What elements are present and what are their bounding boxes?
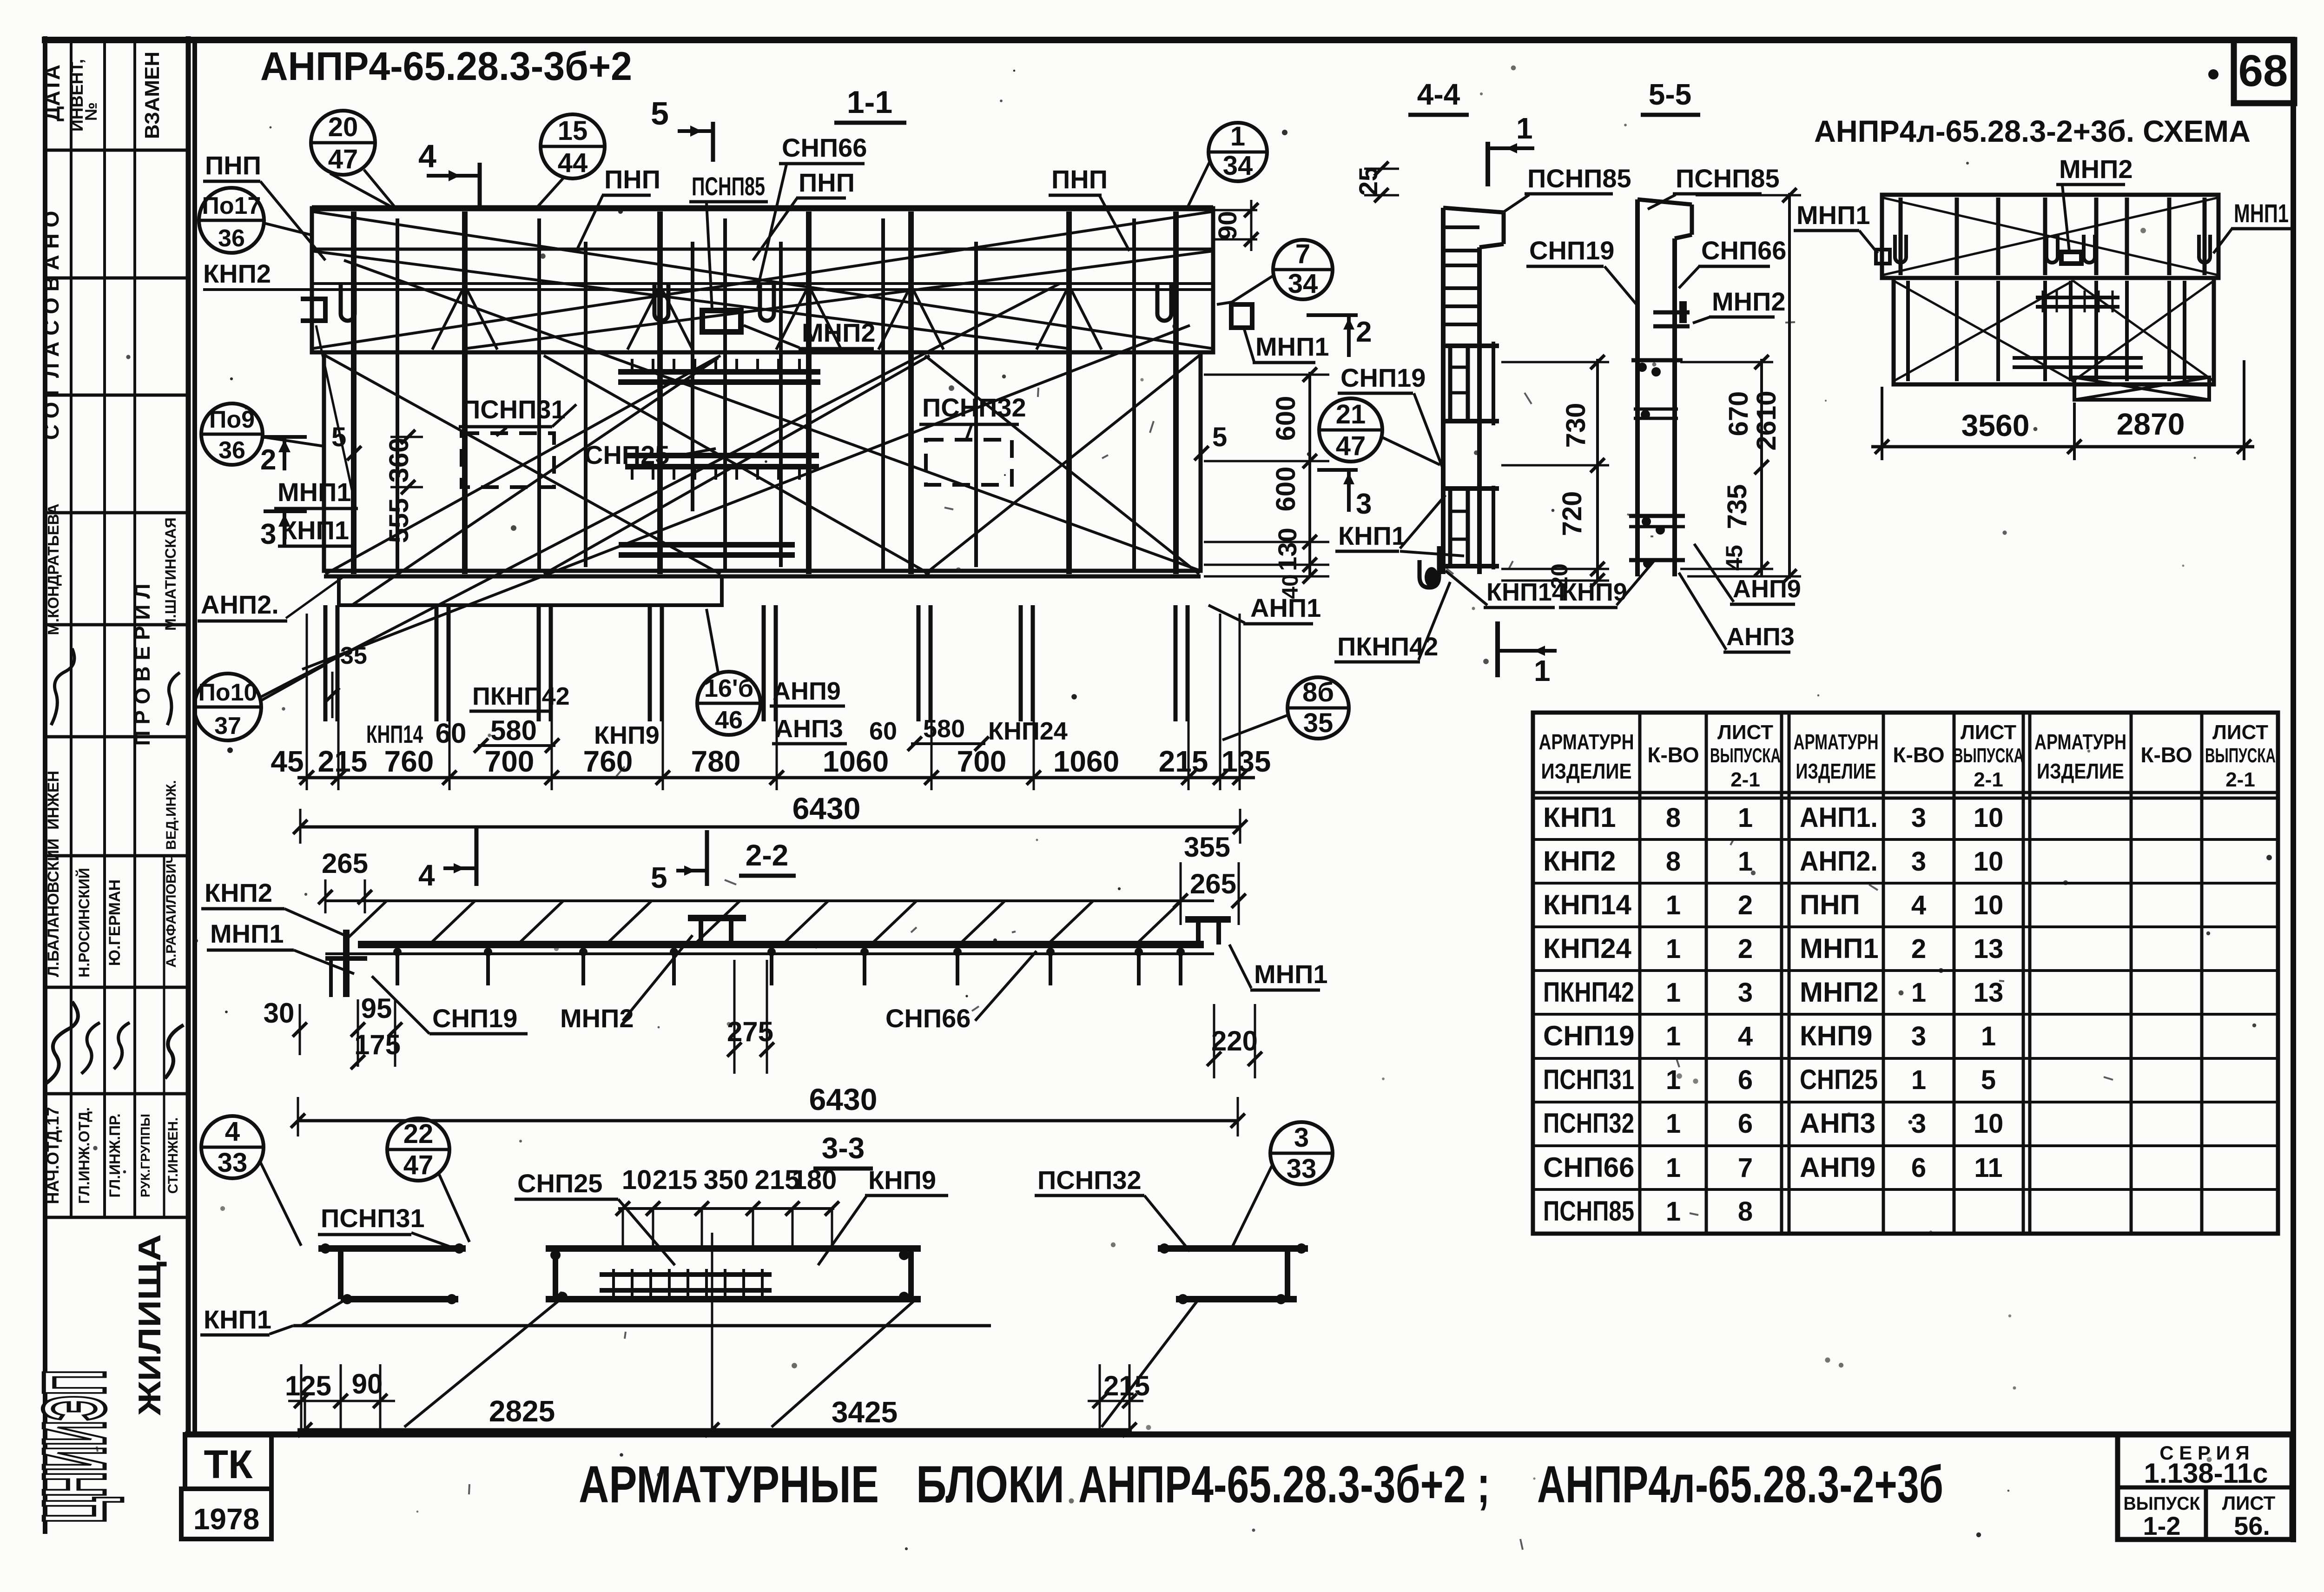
title strip column line 4 (lower part) bbox=[163, 856, 165, 1217]
svg-text:3: 3 bbox=[1356, 488, 1372, 520]
3-3 channel B bbox=[546, 1245, 921, 1252]
svg-text:1: 1 bbox=[1516, 112, 1533, 145]
svg-text:СНП19: СНП19 bbox=[1543, 1020, 1635, 1051]
strip signature 2 bbox=[46, 1002, 78, 1083]
svg-text:3425: 3425 bbox=[832, 1395, 898, 1429]
5-5 column outline bbox=[1635, 199, 1640, 576]
section marker 2 left bbox=[264, 435, 307, 439]
svg-text:1: 1 bbox=[1911, 978, 1926, 1008]
svg-text:КНП1: КНП1 bbox=[1338, 521, 1406, 550]
parts table outer border bbox=[1533, 713, 2278, 1234]
1978 box bbox=[181, 1489, 271, 1539]
svg-text:СТ.ИНЖЕН.: СТ.ИНЖЕН. bbox=[165, 1117, 181, 1194]
svg-text:КНП14: КНП14 bbox=[1543, 889, 1631, 920]
svg-text:45: 45 bbox=[1721, 545, 1747, 571]
dim chain 5-5 outer 2610 bbox=[1788, 193, 1791, 579]
svg-text:265: 265 bbox=[322, 848, 368, 879]
2-2 main bar bbox=[358, 941, 1204, 948]
schema diagonals upper bbox=[1882, 198, 2218, 275]
svg-text:ПНП: ПНП bbox=[1051, 165, 1108, 194]
svg-text:670: 670 bbox=[1723, 391, 1754, 436]
plan vertical bars bbox=[351, 211, 357, 574]
svg-text:5: 5 bbox=[1212, 422, 1227, 452]
svg-text:1: 1 bbox=[1666, 1109, 1681, 1139]
parts table verticals bbox=[1638, 713, 1642, 1234]
strip signature 4 bbox=[165, 1025, 184, 1078]
svg-text:ЛИСТ: ЛИСТ bbox=[2222, 1492, 2276, 1514]
svg-text:ПСНП32: ПСНП32 bbox=[1037, 1165, 1142, 1195]
svg-text:33: 33 bbox=[218, 1148, 248, 1178]
svg-text:КНП2: КНП2 bbox=[205, 878, 272, 907]
svg-text:АНП9: АНП9 bbox=[772, 677, 841, 705]
svg-text:СНП19: СНП19 bbox=[1529, 236, 1614, 265]
title strip row lines bbox=[45, 149, 188, 152]
3-3 channel C bbox=[1158, 1245, 1308, 1252]
strip signature 1 bbox=[51, 648, 74, 725]
svg-text:7: 7 bbox=[1738, 1153, 1753, 1183]
svg-text:8б: 8б bbox=[1302, 677, 1334, 707]
svg-text:215: 215 bbox=[653, 1165, 698, 1195]
svg-text:КНП24: КНП24 bbox=[1543, 933, 1631, 964]
svg-text:Н.РОСИНСКИЙ: Н.РОСИНСКИЙ bbox=[76, 868, 92, 978]
svg-text:2870: 2870 bbox=[2117, 407, 2185, 441]
TK box bbox=[185, 1434, 271, 1489]
svg-text:СНП25: СНП25 bbox=[517, 1169, 602, 1198]
svg-text:5: 5 bbox=[1981, 1065, 1996, 1095]
svg-text:2825: 2825 bbox=[489, 1394, 555, 1428]
svg-text:1: 1 bbox=[1666, 890, 1681, 920]
marker circle 15/44 bbox=[541, 114, 605, 178]
schema end plate left bbox=[1876, 250, 1890, 264]
svg-text:10: 10 bbox=[622, 1165, 652, 1195]
svg-text:2-1: 2-1 bbox=[1974, 768, 2003, 791]
svg-text:МНП2: МНП2 bbox=[2059, 154, 2133, 184]
svg-text:ПСНП31: ПСНП31 bbox=[1543, 1064, 1634, 1095]
2-2 hatch diagonals bbox=[344, 901, 387, 942]
extension lines dim row 1 bbox=[306, 614, 308, 790]
svg-text:20: 20 bbox=[1546, 563, 1572, 589]
svg-text:47: 47 bbox=[403, 1150, 434, 1180]
svg-text:3-3: 3-3 bbox=[822, 1131, 865, 1165]
svg-text:135: 135 bbox=[1221, 745, 1271, 778]
schema mesh bbox=[2036, 296, 2119, 299]
svg-text:ПСНП32: ПСНП32 bbox=[1543, 1108, 1634, 1139]
svg-text:180: 180 bbox=[792, 1165, 837, 1195]
marker circle 8б/35 bbox=[1287, 677, 1349, 739]
svg-text:Ю.ГЕРМАН: Ю.ГЕРМАН bbox=[106, 879, 124, 966]
svg-text:К-ВО: К-ВО bbox=[2140, 743, 2192, 767]
svg-text:90: 90 bbox=[352, 1368, 383, 1400]
svg-text:БЛОКИ: БЛОКИ bbox=[916, 1455, 1064, 1513]
svg-text:1978: 1978 bbox=[193, 1502, 259, 1536]
svg-text:ПСНП85: ПСНП85 bbox=[1527, 164, 1631, 193]
svg-text:1: 1 bbox=[1738, 803, 1753, 833]
svg-text:35: 35 bbox=[1303, 708, 1334, 738]
svg-text:АРМАТУРНЫЕ: АРМАТУРНЫЕ bbox=[579, 1455, 879, 1513]
svg-text:35: 35 bbox=[340, 642, 367, 669]
svg-text:СНП19: СНП19 bbox=[1340, 363, 1426, 392]
svg-text:АРМАТУРН: АРМАТУРН bbox=[1794, 730, 1879, 754]
scan noise speckles bbox=[1480, 92, 1483, 95]
svg-text:700: 700 bbox=[957, 745, 1007, 778]
sheet frame top border bbox=[42, 37, 2295, 43]
section marker 1 bottom of 4-4 bbox=[1495, 621, 1500, 677]
svg-text:56.: 56. bbox=[2234, 1511, 2270, 1540]
svg-text:ВЫПУСКА: ВЫПУСКА bbox=[1953, 744, 2024, 767]
svg-text:36: 36 bbox=[218, 225, 245, 252]
svg-text:АНПР4л-65.28.3-2+3б. СХЕМА: АНПР4л-65.28.3-2+3б. СХЕМА bbox=[1814, 114, 2251, 148]
svg-text:ВЫПУСКА: ВЫПУСКА bbox=[1710, 744, 1781, 767]
svg-text:№: № bbox=[81, 102, 100, 121]
4-4 column outline bbox=[1441, 208, 1446, 574]
svg-text:2-1: 2-1 bbox=[2225, 768, 2255, 791]
svg-text:2-1: 2-1 bbox=[1730, 768, 1760, 791]
3-3 centre axis line bbox=[711, 1233, 713, 1434]
svg-text:37: 37 bbox=[214, 713, 241, 740]
marker circle По9/36 bbox=[201, 403, 263, 465]
svg-text:220: 220 bbox=[1211, 1025, 1258, 1057]
svg-text:По9: По9 bbox=[209, 406, 255, 433]
svg-text:МНП2: МНП2 bbox=[1800, 977, 1879, 1008]
4-4 bottom hook bbox=[1419, 546, 1439, 588]
svg-text:МНП1: МНП1 bbox=[210, 919, 284, 948]
plan long leader line KНП2 bbox=[203, 288, 1213, 291]
svg-text:3: 3 bbox=[1911, 1109, 1926, 1139]
svg-text:1: 1 bbox=[1666, 934, 1681, 964]
sheet frame bottom border bbox=[185, 1432, 2293, 1438]
svg-text:6: 6 bbox=[1738, 1065, 1753, 1095]
marker circle 20/47 bbox=[311, 111, 375, 175]
svg-text:13: 13 bbox=[1974, 978, 2004, 1008]
svg-text:К-ВО: К-ВО bbox=[1647, 743, 1699, 767]
svg-text:730: 730 bbox=[1561, 403, 1591, 448]
svg-text:130: 130 bbox=[1273, 528, 1302, 571]
marker circle 22/47 bbox=[387, 1118, 449, 1181]
svg-text:ИЗДЕЛИЕ: ИЗДЕЛИЕ bbox=[1541, 759, 1632, 783]
plan U-hooks bbox=[341, 283, 355, 321]
svg-text:580: 580 bbox=[490, 715, 537, 746]
svg-text:7: 7 bbox=[1295, 239, 1310, 269]
dim chain 5-5 inner bbox=[1760, 359, 1763, 576]
svg-text:5: 5 bbox=[651, 95, 669, 132]
svg-text:ТК: ТК bbox=[204, 1442, 253, 1487]
svg-text:350: 350 bbox=[704, 1165, 749, 1195]
3-3 channel A bbox=[318, 1245, 466, 1252]
plan mesh bars centre bbox=[618, 369, 820, 375]
schema dim 3560 2870 bbox=[1881, 387, 1883, 460]
svg-text:ПНП: ПНП bbox=[799, 168, 855, 197]
svg-text:1: 1 bbox=[1666, 1196, 1681, 1227]
strip signature 3 bbox=[167, 673, 180, 725]
svg-text:760: 760 bbox=[384, 745, 434, 778]
svg-text:1: 1 bbox=[1230, 121, 1245, 152]
svg-text:22: 22 bbox=[403, 1119, 434, 1149]
series box bbox=[2118, 1434, 2292, 1539]
marker circle 1/34 bbox=[1208, 123, 1267, 181]
svg-text:ИЗДЕЛИЕ: ИЗДЕЛИЕ bbox=[1796, 759, 1876, 783]
svg-text:2: 2 bbox=[1738, 934, 1753, 964]
svg-text:3: 3 bbox=[260, 518, 276, 550]
schema lower right block bbox=[2074, 377, 2209, 400]
svg-text:А.РАФАИЛОВИЧ ВЕД.ИНЖ.: А.РАФАИЛОВИЧ ВЕД.ИНЖ. bbox=[164, 780, 179, 967]
svg-text:МНП1: МНП1 bbox=[1254, 959, 1327, 989]
svg-text:СНП66: СНП66 bbox=[782, 133, 867, 162]
svg-text:34: 34 bbox=[1223, 151, 1253, 181]
svg-text:1060: 1060 bbox=[823, 745, 889, 778]
plan upper band gussets bbox=[432, 285, 465, 350]
2-2 right end piece bbox=[1185, 916, 1231, 923]
svg-text:215: 215 bbox=[1103, 1370, 1150, 1401]
svg-text:КНП14: КНП14 bbox=[366, 720, 423, 748]
plan left end plate МНП1 bbox=[301, 299, 325, 321]
svg-text:90: 90 bbox=[1213, 211, 1242, 240]
svg-text:780: 780 bbox=[691, 745, 741, 778]
svg-text:ГЛ.ИНЖ.ОТД.: ГЛ.ИНЖ.ОТД. bbox=[76, 1107, 92, 1204]
svg-text:ЛИСТ: ЛИСТ bbox=[1961, 721, 2016, 744]
page number box 68 bbox=[2234, 40, 2294, 103]
svg-text:МНП1: МНП1 bbox=[1800, 933, 1879, 964]
svg-text:КНП9: КНП9 bbox=[868, 1165, 936, 1195]
svg-text:10: 10 bbox=[1974, 803, 2004, 833]
svg-text:ЖИЛИЩА: ЖИЛИЩА bbox=[132, 1234, 167, 1416]
svg-text:ПКНП42: ПКНП42 bbox=[1543, 977, 1634, 1008]
plan right end plate МНП1 bbox=[1231, 304, 1252, 328]
svg-text:ВЫПУСКА: ВЫПУСКА bbox=[2205, 744, 2276, 767]
svg-text:КНП9: КНП9 bbox=[1800, 1020, 1872, 1051]
svg-text:СНП25: СНП25 bbox=[1800, 1064, 1878, 1095]
svg-text:6430: 6430 bbox=[792, 791, 861, 826]
svg-text:АНП1.: АНП1. bbox=[1800, 802, 1878, 833]
dim row 1 line bbox=[297, 776, 1255, 779]
svg-text:1: 1 bbox=[1666, 1065, 1681, 1095]
title strip outer left border bbox=[43, 36, 47, 1534]
svg-text:ДАТА: ДАТА bbox=[40, 65, 64, 121]
svg-text:4: 4 bbox=[1911, 890, 1926, 920]
marker circle 7/34 bbox=[1273, 240, 1333, 299]
svg-text:АНПР4-65.28.3-3б+2: АНПР4-65.28.3-3б+2 bbox=[260, 44, 632, 89]
svg-text:1: 1 bbox=[1534, 654, 1551, 687]
svg-text:4: 4 bbox=[418, 138, 436, 174]
svg-text:8: 8 bbox=[1666, 846, 1681, 877]
svg-text:68: 68 bbox=[2238, 46, 2288, 96]
svg-text:36: 36 bbox=[218, 437, 245, 464]
svg-text:6: 6 bbox=[1911, 1153, 1926, 1183]
svg-text:По10: По10 bbox=[198, 679, 257, 706]
dim chain 4-4 bbox=[1596, 359, 1599, 581]
svg-text:47: 47 bbox=[1336, 431, 1366, 461]
plan upper band inner line 1 bbox=[312, 248, 1213, 251]
marker circle 3/33 bbox=[1270, 1122, 1333, 1184]
svg-text:СНП19: СНП19 bbox=[432, 1004, 517, 1033]
svg-text:АНП3: АНП3 bbox=[775, 715, 843, 743]
schema lower band bbox=[1894, 278, 2214, 384]
svg-text:По17: По17 bbox=[202, 192, 261, 219]
marker circle 4/33 bbox=[201, 1116, 264, 1178]
svg-text:600: 600 bbox=[1271, 467, 1301, 512]
svg-text:ПСНП85: ПСНП85 bbox=[692, 172, 765, 201]
svg-text:46: 46 bbox=[715, 706, 743, 734]
svg-text:11: 11 bbox=[1974, 1153, 2002, 1183]
2-2 centre piece МНП2 bbox=[688, 915, 746, 921]
svg-text:ПНП: ПНП bbox=[604, 165, 660, 194]
5-5 details bbox=[1631, 358, 1683, 363]
svg-text:АНПР4-65.28.3-3б+2 ;: АНПР4-65.28.3-3б+2 ; bbox=[1078, 1455, 1490, 1513]
svg-text:16'б: 16'б bbox=[704, 674, 753, 702]
svg-text:265: 265 bbox=[1190, 868, 1236, 899]
svg-text:1-1: 1-1 bbox=[847, 85, 892, 120]
svg-text:10: 10 bbox=[1974, 1109, 2004, 1139]
svg-text:700: 700 bbox=[485, 745, 535, 778]
svg-text:ЛИСТ: ЛИСТ bbox=[1717, 721, 1773, 744]
plan lower band outline bbox=[324, 352, 1201, 571]
plan dashed duct right bbox=[926, 440, 1012, 485]
svg-text:КНП2: КНП2 bbox=[203, 259, 271, 288]
schema U-hooks bbox=[1895, 235, 1906, 263]
sheet frame left inner border bbox=[192, 40, 197, 1434]
schema diagonals lower bbox=[1894, 281, 2073, 381]
dim 90 right of plan bbox=[1214, 209, 1257, 211]
svg-text:21: 21 bbox=[1336, 399, 1366, 429]
svg-text:П Р О В Е Р И Л: П Р О В Е Р И Л bbox=[130, 584, 154, 746]
svg-text:2: 2 bbox=[1738, 890, 1753, 920]
svg-text:6: 6 bbox=[1738, 1109, 1753, 1139]
svg-text:6430: 6430 bbox=[809, 1082, 878, 1116]
svg-text:34: 34 bbox=[1288, 269, 1318, 299]
svg-text:355: 355 bbox=[1184, 832, 1230, 863]
marker circle 16'б/46 bbox=[697, 672, 760, 735]
plan upper band inner line 2 bbox=[312, 282, 1213, 285]
svg-text:Л.БАЛАНОВСКИЙ ИНЖЕН: Л.БАЛАНОВСКИЙ ИНЖЕН bbox=[44, 771, 62, 977]
svg-text:СНП66: СНП66 bbox=[1543, 1152, 1635, 1183]
4-4 ladder rungs bbox=[1443, 225, 1479, 229]
svg-text:М.КОНДРАТЬЕВА: М.КОНДРАТЬЕВА bbox=[45, 503, 62, 635]
plan centre plate МНП2 bbox=[702, 310, 741, 332]
svg-text:13: 13 bbox=[1974, 934, 2004, 964]
parts table header separator bbox=[1533, 791, 2278, 794]
svg-text:600: 600 bbox=[1271, 396, 1301, 441]
section marker 2 right bbox=[1307, 313, 1358, 317]
svg-text:1: 1 bbox=[1666, 978, 1681, 1008]
svg-text:3: 3 bbox=[1738, 978, 1753, 1008]
svg-text:МНП1: МНП1 bbox=[1255, 332, 1329, 361]
svg-text:2-2: 2-2 bbox=[746, 839, 789, 872]
svg-text:КНП24: КНП24 bbox=[988, 717, 1068, 745]
svg-text:М.ШАТИНСКАЯ: М.ШАТИНСКАЯ bbox=[162, 517, 179, 631]
svg-text:ПНП: ПНП bbox=[205, 151, 261, 180]
svg-text:360: 360 bbox=[384, 438, 414, 483]
svg-text:20: 20 bbox=[328, 112, 358, 142]
svg-text:30: 30 bbox=[264, 997, 295, 1029]
svg-text:1.138-11с: 1.138-11с bbox=[2144, 1458, 2268, 1489]
svg-text:2: 2 bbox=[1911, 934, 1926, 964]
svg-text:ВЗАМЕН: ВЗАМЕН bbox=[141, 52, 164, 139]
bar end pairs below plan bbox=[324, 605, 328, 721]
svg-text:735: 735 bbox=[1722, 484, 1752, 529]
section marker 3 left bbox=[264, 509, 307, 513]
svg-text:10: 10 bbox=[1974, 846, 2004, 877]
svg-text:760: 760 bbox=[583, 745, 633, 778]
svg-text:3560: 3560 bbox=[1961, 408, 2030, 443]
svg-text:4: 4 bbox=[225, 1116, 240, 1147]
svg-text:С О Г Л А С О В А Н О: С О Г Л А С О В А Н О bbox=[39, 211, 63, 440]
svg-text:3: 3 bbox=[1911, 846, 1926, 877]
svg-text:ЛИСТ: ЛИСТ bbox=[2212, 721, 2268, 744]
svg-text:МНП1: МНП1 bbox=[1796, 200, 1870, 230]
strip signature 5 bbox=[81, 1023, 100, 1074]
svg-text:10: 10 bbox=[1974, 890, 2004, 920]
schema verticals lower bbox=[1906, 281, 1910, 381]
parts table row lines bbox=[1533, 838, 2278, 841]
svg-text:КНП1: КНП1 bbox=[204, 1305, 271, 1334]
plan diagonals lower band bbox=[325, 356, 720, 574]
4-4 lower box bbox=[1441, 486, 1499, 491]
svg-text:4: 4 bbox=[418, 859, 435, 892]
svg-text:3: 3 bbox=[1911, 1021, 1926, 1051]
svg-text:95: 95 bbox=[361, 993, 392, 1024]
svg-text:5: 5 bbox=[651, 861, 667, 894]
plan lower band bottom double line bbox=[324, 575, 1201, 579]
svg-text:КНП1: КНП1 bbox=[1543, 802, 1616, 833]
svg-text:АРМАТУРН: АРМАТУРН bbox=[1539, 730, 1634, 754]
2-2 top chord line bbox=[325, 899, 1214, 902]
svg-text:ПСНП32: ПСНП32 bbox=[922, 393, 1026, 422]
svg-text:2610: 2610 bbox=[1751, 390, 1782, 450]
svg-text:3: 3 bbox=[1294, 1123, 1309, 1153]
svg-text:44: 44 bbox=[558, 148, 588, 178]
svg-text:АНП2.: АНП2. bbox=[1800, 846, 1878, 877]
marker circle По10/37 bbox=[194, 674, 261, 740]
svg-text:60: 60 bbox=[436, 718, 467, 749]
svg-text:1: 1 bbox=[1666, 1153, 1681, 1183]
3-3 diagonal leaders bbox=[404, 1301, 558, 1427]
svg-text:3: 3 bbox=[1911, 803, 1926, 833]
svg-text:33: 33 bbox=[1287, 1154, 1317, 1184]
svg-text:215: 215 bbox=[1159, 745, 1208, 778]
svg-text:45: 45 bbox=[271, 745, 304, 778]
svg-text:ГЛ.ИНЖ.ПР.: ГЛ.ИНЖ.ПР. bbox=[106, 1113, 123, 1197]
svg-text:АНП3: АНП3 bbox=[1726, 623, 1795, 651]
svg-text:4: 4 bbox=[1738, 1021, 1753, 1051]
svg-text:47: 47 bbox=[328, 144, 358, 174]
plan long cross leaders bbox=[260, 284, 1060, 697]
schema verticals upper bbox=[1899, 198, 1903, 275]
strip signature 6 bbox=[114, 1023, 130, 1069]
svg-text:580: 580 bbox=[923, 715, 965, 743]
svg-text:РУК.ГРУППЫ: РУК.ГРУППЫ bbox=[138, 1114, 152, 1197]
marker circle 21/47 bbox=[1319, 398, 1382, 462]
svg-text:175: 175 bbox=[354, 1029, 401, 1060]
svg-text:1: 1 bbox=[1911, 1065, 1926, 1095]
svg-text:СНП66: СНП66 bbox=[1701, 236, 1786, 265]
3-3 long bar КНП1 bbox=[293, 1324, 991, 1328]
svg-text:ПСНП85: ПСНП85 bbox=[1543, 1196, 1634, 1227]
svg-text:ПСНП31: ПСНП31 bbox=[321, 1203, 425, 1233]
svg-text:2: 2 bbox=[260, 444, 276, 476]
svg-text:АНП1: АНП1 bbox=[1250, 593, 1321, 622]
svg-text:720: 720 bbox=[1557, 491, 1587, 536]
svg-text:5-5: 5-5 bbox=[1649, 78, 1692, 111]
sheet frame right border bbox=[2291, 37, 2296, 1542]
svg-text:ПСНП31: ПСНП31 bbox=[462, 395, 566, 424]
svg-text:ПКНП42: ПКНП42 bbox=[472, 682, 570, 710]
svg-text:555: 555 bbox=[384, 498, 414, 543]
schema centre plate МНП2 bbox=[2061, 252, 2081, 264]
dim chain right of plan 600-600-130-40 bbox=[1308, 372, 1311, 576]
plan bottom strip АНП2 bbox=[339, 576, 722, 605]
title strip column line 1 bbox=[70, 40, 73, 1217]
plan diagonals upper band bbox=[312, 211, 1213, 349]
svg-text:КНП2: КНП2 bbox=[1543, 846, 1616, 877]
